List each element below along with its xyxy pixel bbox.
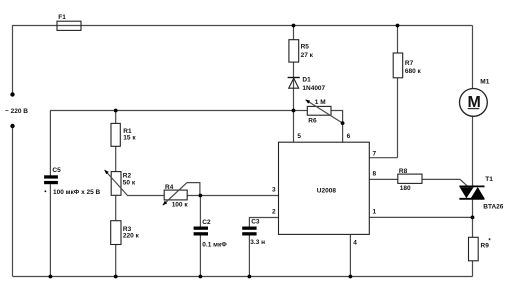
svg-text:3.3 н: 3.3 н [250, 239, 265, 246]
wire R9 to bottom rail [472, 261, 474, 277]
wire IC pin 7 lead [369, 157, 397, 159]
svg-text:220 к: 220 к [123, 233, 140, 240]
resistor R8 [398, 174, 422, 183]
svg-text:8: 8 [373, 171, 377, 178]
svg-text:R6: R6 [308, 117, 317, 124]
node R5 top rail junction [292, 24, 296, 28]
wire C2 branch upper [199, 196, 201, 227]
svg-text:0.1 мкФ: 0.1 мкФ [202, 241, 227, 248]
svg-text:M1: M1 [480, 79, 489, 86]
svg-text:180: 180 [400, 185, 411, 192]
wire divider vertical through R1 R2 R3 [115, 111, 117, 277]
svg-text:100 мкФ x 25 В: 100 мкФ x 25 В [53, 189, 101, 196]
wire C2 branch lower [199, 235, 201, 276]
node ~220V bottom terminal [10, 124, 14, 128]
capacitor C3 [242, 227, 256, 236]
node C5 bottom rail junction [49, 275, 53, 279]
svg-text:6: 6 [347, 133, 351, 140]
svg-text:4: 4 [353, 239, 357, 246]
resistor R3 [111, 221, 121, 245]
capacitor C5 [44, 175, 58, 192]
resistor R9 [469, 237, 479, 260]
svg-text:680 к: 680 к [405, 68, 422, 75]
node R7 top rail junction [396, 24, 400, 28]
svg-text:R4: R4 [165, 184, 174, 191]
node divider R1 top junction [114, 109, 118, 113]
node pin4 bottom rail junction [349, 275, 353, 279]
wire R6 left lead [294, 110, 308, 112]
wire IC pin 4 vertical [349, 234, 351, 276]
svg-text:T1: T1 [485, 176, 493, 183]
svg-text:2: 2 [272, 209, 276, 216]
potentiometer R2 [104, 170, 127, 196]
node D1 bottom junction [292, 109, 296, 113]
fuse F1 [57, 21, 81, 30]
svg-text:C2: C2 [202, 219, 211, 226]
node pin1 triac junction [471, 216, 475, 220]
svg-text:F1: F1 [58, 14, 66, 21]
node C2 bottom rail junction [199, 275, 203, 279]
wire R7 branch vertical [397, 26, 399, 158]
wire triac to R9 [472, 199, 474, 238]
svg-text:~ 220 В: ~ 220 В [5, 108, 28, 115]
transistor T1 triac [459, 186, 484, 198]
node R3 bottom rail junction [114, 275, 118, 279]
svg-text:1N4007: 1N4007 [302, 85, 325, 92]
svg-text:100 к: 100 к [172, 201, 189, 208]
svg-text:1: 1 [373, 208, 377, 215]
wire IC pin 5 vertical [293, 111, 295, 143]
svg-text:15 к: 15 к [123, 134, 136, 141]
svg-text:50 к: 50 к [123, 179, 136, 186]
diode D1 [288, 78, 300, 89]
wire left lower vertical [12, 126, 14, 277]
svg-text:R5: R5 [301, 44, 310, 51]
op-amp U1 IC U2008 [279, 142, 370, 234]
wire IC pin 8 to R8 to triac gate [369, 179, 468, 186]
resistor R1 [111, 123, 120, 146]
node R6 wiper junction [341, 121, 345, 125]
node R4 output junction [199, 194, 203, 198]
svg-text:BTA26: BTA26 [483, 203, 503, 210]
wire C5 branch upper [49, 111, 51, 176]
resistor R7 [393, 53, 403, 78]
svg-text:3: 3 [272, 187, 276, 194]
capacitor C2 [194, 227, 208, 236]
svg-text:C5: C5 [52, 167, 61, 174]
wire R2 wiper to R4 to IC pin 3 [127, 195, 279, 197]
potentiometer R6 [305, 100, 342, 124]
svg-text:C3: C3 [251, 219, 260, 226]
potentiometer R4 [163, 183, 188, 206]
wire R5 D1 branch vertical [293, 26, 295, 111]
wire C3 branch lower [248, 235, 250, 276]
wire IC pin 2 to C3 [249, 218, 278, 227]
svg-text:1 М: 1 М [315, 99, 326, 106]
resistor R5 [289, 40, 299, 62]
wire IC pin 1 lead [369, 216, 472, 218]
wire top rail [13, 26, 473, 95]
wire motor to triac [472, 116, 474, 186]
wire R6 right lead and pin 6 vertical [331, 111, 343, 143]
svg-text:D1: D1 [302, 77, 311, 84]
wire right vertical top (to motor) [472, 26, 474, 89]
wire bottom rail [13, 276, 473, 278]
svg-text:5: 5 [297, 133, 301, 140]
wire R4 wiper loop [187, 183, 200, 196]
node ~220V top terminal [10, 92, 14, 96]
svg-text:R8: R8 [399, 168, 408, 175]
svg-text:27 к: 27 к [301, 52, 314, 59]
wire C5 branch lower [49, 184, 51, 276]
wire node-A horizontal (divider top net) [50, 110, 294, 112]
svg-text:7: 7 [373, 150, 377, 157]
node C3 bottom rail junction [248, 275, 252, 279]
motor M1 [460, 89, 488, 117]
svg-text:R7: R7 [405, 60, 414, 67]
svg-text:U2008: U2008 [317, 188, 337, 195]
